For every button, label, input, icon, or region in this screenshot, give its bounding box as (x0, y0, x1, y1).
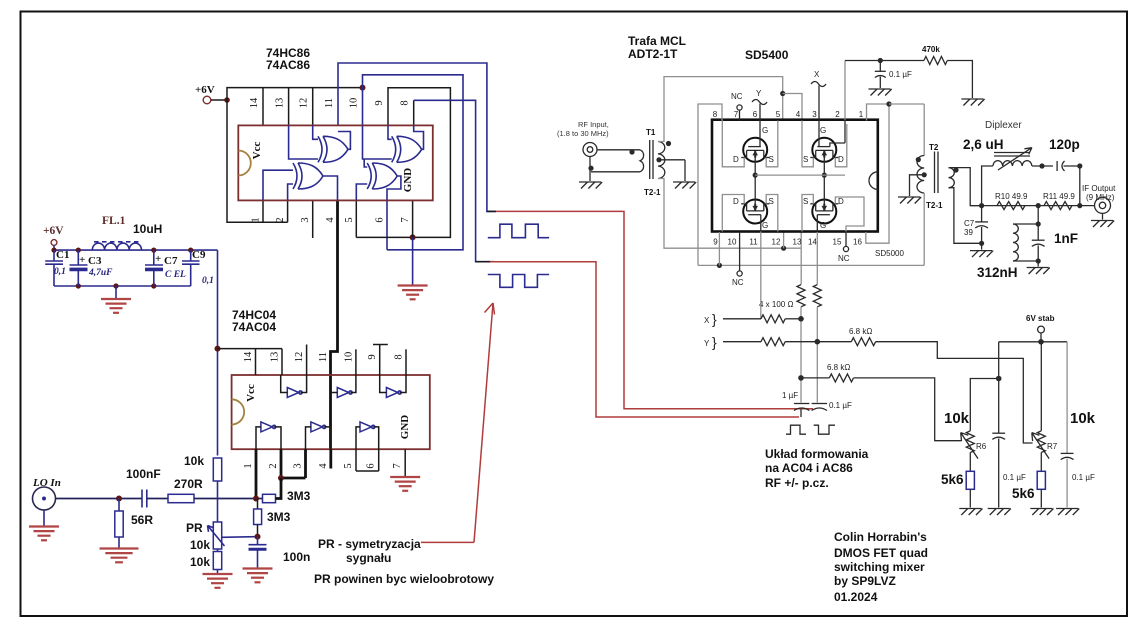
svg-text:14: 14 (808, 238, 817, 247)
svg-text:Trafa MCL: Trafa MCL (628, 34, 686, 48)
svg-text:R10 49.9: R10 49.9 (995, 192, 1028, 201)
bracket Q3 source to pin12 col (766, 195, 778, 232)
svg-text:1: 1 (251, 217, 262, 222)
wire pin 1 / pin 16 hook to T2 primary top (867, 104, 890, 121)
XOR gate C of U1 (298, 163, 323, 189)
svg-text:G: G (820, 221, 826, 230)
gate B output wire to pin 8 (414, 125, 424, 149)
capacitor C7 (C EL electrolytic) (151, 248, 156, 253)
gate5 wires (306, 427, 311, 449)
capacitor 100nF (141, 490, 143, 508)
svg-text:13: 13 (275, 98, 286, 109)
svg-text:15: 15 (833, 238, 842, 247)
red annotation arrow to square waves (474, 303, 493, 542)
gate2 wires (331, 392, 338, 394)
capacitor 0.1uF at bias rail (879, 61, 881, 72)
svg-text:na AC04 i AC86: na AC04 i AC86 (765, 461, 853, 475)
inverter gate 4 of U2 (261, 422, 273, 432)
svg-text:0.1 µF: 0.1 µF (1072, 473, 1095, 482)
svg-text:T2: T2 (929, 143, 939, 152)
junction at pin 10 (+6V tie) (360, 85, 366, 91)
svg-text:FL.1: FL.1 (102, 215, 126, 227)
svg-text:100n: 100n (283, 550, 310, 564)
svg-text:9: 9 (367, 354, 378, 359)
inductor FL1 10uH (94, 241, 140, 243)
svg-text:GND: GND (402, 168, 414, 193)
svg-text:10: 10 (728, 238, 737, 247)
svg-text:+: + (155, 253, 161, 265)
transformer T1 primary winding (640, 150, 644, 172)
svg-text:11: 11 (318, 352, 329, 362)
svg-text:Diplexer: Diplexer (985, 120, 1022, 131)
resistor R11 49.9 (1044, 202, 1072, 210)
transformer T2 primary (923, 104, 925, 156)
ground of 56R (100, 547, 139, 549)
gate4 wires (256, 427, 261, 449)
junction LO at U2 pin1 (253, 496, 259, 502)
junction at 74HC04 Vcc feed (215, 346, 221, 352)
transformer T1 core (649, 140, 651, 179)
ground of power filter (113, 283, 118, 288)
XOR gate B of U1 (397, 136, 422, 162)
wire red LO drive 2 to forming network (476, 261, 490, 263)
wire U2 pin4 stub (329, 449, 332, 468)
svg-text:4: 4 (318, 463, 329, 469)
svg-text:Układ formowania: Układ formowania (765, 447, 869, 461)
svg-text:S: S (769, 155, 774, 164)
XOR gate A of U1 (323, 136, 348, 162)
svg-text:8: 8 (713, 110, 718, 119)
wire pin9 net to pins 5,7 and ground (356, 88, 450, 238)
ground of LO connector (43, 510, 45, 526)
svg-text:C1: C1 (56, 249, 69, 261)
svg-text:2,6 uH: 2,6 uH (963, 137, 1004, 152)
svg-text:Vcc: Vcc (245, 384, 257, 402)
svg-text:0,1: 0,1 (54, 267, 66, 277)
wire Q2-Q4 channel tie (823, 150, 825, 211)
resistor 100R in Y row (761, 338, 785, 346)
bracket Q1 drain to pin8 col (722, 121, 744, 167)
svg-text:7: 7 (400, 217, 411, 222)
inverter gate 5 of U2 (311, 422, 323, 432)
svg-text:10uH: 10uH (133, 222, 162, 236)
wire T1 center tap to ground (656, 157, 661, 162)
svg-text:}: } (712, 311, 717, 327)
ground of right bias cap (1056, 508, 1078, 510)
resistor 3M3 horizontal (263, 494, 276, 502)
bracket Q1 source to pin5 col (766, 121, 778, 167)
junction X bias node (798, 375, 804, 381)
svg-text:PR powinen byc wieloobrotowy: PR powinen byc wieloobrotowy (314, 572, 494, 586)
svg-text:R6: R6 (976, 442, 987, 451)
wire U2 pins 2,3 tie (thick) (280, 449, 283, 478)
gate1 wires (281, 375, 288, 393)
svg-text:ADT2-1T: ADT2-1T (628, 47, 678, 61)
ground of bias 0.1uF (869, 88, 891, 90)
ground of C7 (981, 243, 983, 249)
svg-text:10k: 10k (190, 555, 210, 569)
junction at pin 7 (410, 234, 416, 240)
svg-text:D: D (838, 197, 844, 206)
svg-text:switching mixer: switching mixer (834, 560, 925, 574)
svg-text:DMOS FET quad: DMOS FET quad (834, 546, 928, 560)
wire PR wiper to 3M3/100n junction (222, 536, 258, 539)
inverter gate 2 of U2 (337, 388, 349, 398)
bracket Q4 drain box to right (835, 197, 864, 232)
resistor 5k6 right (1040, 453, 1042, 472)
svg-text:11: 11 (324, 98, 335, 108)
IC U1 74HC86 body (238, 125, 432, 200)
wire pin11 net to red LO drive 1 (338, 63, 496, 211)
ground of divider (203, 573, 233, 575)
wire rail left branch to R6 top node (998, 342, 1000, 379)
pin 15 NC (845, 232, 847, 246)
wire 6V stab rail (999, 341, 1067, 343)
resistor 10k lower of divider (213, 552, 221, 570)
svg-text:10k: 10k (1070, 410, 1096, 427)
bracket Q2 source to pin4 col (802, 121, 813, 167)
svg-text:S: S (803, 155, 808, 164)
gate A input wires from pins 12,13 (313, 125, 318, 139)
capacitor C3 (4,7uF electrolytic) (76, 248, 81, 253)
resistor 100R vertical right (pin 14 leg) (816, 232, 818, 285)
svg-text:S: S (769, 197, 774, 206)
IC U3 SD5400 package (thick) (712, 120, 878, 232)
pin 10 NC (739, 232, 741, 271)
svg-text:T1: T1 (646, 128, 656, 137)
capacitor 120p (1056, 161, 1058, 171)
svg-text:RF +/- p.cz.: RF +/- p.cz. (765, 476, 829, 490)
wire U2 pin7 to ground (404, 449, 406, 476)
bracket Q2 drain to pin2 side (835, 124, 847, 167)
svg-text:Y: Y (704, 339, 710, 348)
wire red LO drive 1 to forming network (487, 210, 496, 212)
resistor 100R vertical left (800, 248, 802, 284)
svg-text:5: 5 (344, 217, 355, 222)
wire T1 secondary top to SD5400 pins 4,5 (658, 77, 783, 142)
svg-text:0.1 µF: 0.1 µF (1003, 473, 1026, 482)
wire to 270R (147, 498, 168, 500)
svg-text:R7: R7 (1047, 442, 1058, 451)
potentiometer PR 10k (213, 522, 221, 549)
svg-text:0.1 µF: 0.1 µF (889, 70, 912, 79)
red annotation leader line (421, 541, 474, 543)
svg-text:74AC86: 74AC86 (266, 58, 310, 72)
svg-text:(1.8 to 30 MHz): (1.8 to 30 MHz) (557, 129, 609, 138)
svg-text:1 µF: 1 µF (782, 391, 798, 400)
svg-text:6: 6 (375, 217, 386, 222)
svg-text:8: 8 (394, 354, 405, 359)
svg-text:Vcc: Vcc (251, 142, 263, 160)
junction 0.1uF on bias rail (878, 58, 883, 63)
transformer T1 secondary winding (658, 142, 665, 179)
svg-text:10: 10 (349, 98, 360, 109)
svg-text:PR: PR (186, 521, 203, 535)
wire to 74HC04 pins 14/13 (218, 348, 283, 350)
wire 120p to node C (1064, 165, 1080, 167)
svg-text:NC: NC (731, 92, 743, 101)
svg-text:12: 12 (294, 352, 305, 363)
svg-text:120p: 120p (1049, 137, 1080, 152)
svg-text:14: 14 (243, 351, 254, 362)
svg-text:01.2024: 01.2024 (834, 590, 878, 604)
svg-text:13: 13 (793, 238, 802, 247)
svg-text:74AC04: 74AC04 (232, 320, 276, 334)
potentiometer R6 (966, 431, 974, 453)
wire R6 top (970, 379, 998, 431)
wire 470k bias rail at pin 2 (844, 61, 846, 121)
junction 6V stab rail (1038, 339, 1044, 345)
svg-text:3: 3 (812, 110, 817, 119)
wire T2 secondary bottom to C7 ground node (949, 188, 982, 244)
svg-text:T2-1: T2-1 (926, 201, 943, 210)
capacitor 0.1uF right bias (1061, 452, 1074, 454)
junction 3M3/100n/PR (255, 534, 261, 540)
inverter gate 3 of U2 (386, 388, 398, 398)
svg-text:NC: NC (732, 278, 744, 287)
ground of 100n (243, 567, 273, 569)
svg-text:8: 8 (400, 100, 411, 105)
U3 die notch (869, 172, 878, 190)
svg-text:6: 6 (366, 463, 377, 468)
svg-text:100nF: 100nF (126, 467, 161, 481)
transformer T2 secondary (949, 168, 955, 188)
svg-text:9: 9 (713, 238, 718, 247)
svg-text:10k: 10k (190, 538, 210, 552)
wire +6V rail top (54, 249, 218, 251)
svg-text:by SP9LVZ: by SP9LVZ (834, 574, 896, 588)
svg-text:Y: Y (756, 89, 762, 98)
svg-text:11: 11 (749, 238, 758, 247)
svg-text:14: 14 (249, 97, 260, 108)
resistor 5k6 left (969, 453, 971, 472)
wire to 120p (1032, 165, 1053, 167)
svg-text:C7: C7 (164, 255, 178, 267)
resistor 56R (118, 499, 120, 512)
svg-text:312nH: 312nH (977, 265, 1018, 280)
square wave symbol 3 (black) (786, 425, 806, 434)
svg-text:12: 12 (772, 238, 781, 247)
capacitor C7 39 (981, 206, 983, 222)
wire divider 10k to PR pot (217, 481, 219, 522)
inverter gate 6 of U2 (360, 422, 372, 432)
svg-text:GND: GND (399, 415, 411, 440)
IC U2 74HC04 body (232, 375, 430, 449)
svg-text:2: 2 (268, 463, 279, 468)
gate D output wire to pin 6 (387, 176, 401, 200)
gate6 wires (356, 427, 360, 449)
IC U1 notch (238, 151, 250, 176)
junction pins2/3 (278, 475, 284, 481)
wire +6V top run to pin10 junction (227, 88, 363, 100)
junction +6V loop (224, 97, 230, 103)
gate B input wires from pins 9,10 (388, 125, 392, 139)
inductor 2,6uH variable (993, 161, 1032, 166)
wire SD5400 bottom rail to T2 primary bottom (698, 264, 924, 266)
svg-text:+6V: +6V (195, 84, 215, 96)
pin stubs top of U2 (255, 349, 257, 375)
svg-text:G: G (820, 126, 826, 135)
wire 270R to U2 pin1 junction (194, 498, 263, 500)
ground of U2 pin 7 (390, 476, 420, 478)
ground of left bias cap (988, 508, 1010, 510)
wire T1 secondary bottom to SD5400 pins 12,13 (658, 179, 801, 249)
resistor 3M3 vertical (257, 499, 259, 510)
wire center ties crossbar (755, 174, 845, 176)
square wave symbol 2 (blue) (488, 275, 549, 288)
wire LO main line (56, 498, 143, 500)
svg-text:C EL: C EL (165, 270, 186, 280)
wire T2 primary bottom to rail (923, 193, 925, 265)
capacitor 0.1uF (forming) (812, 403, 828, 405)
wire bottom rail of filter (54, 285, 191, 287)
gate C input wires from pins 1,2 (263, 170, 293, 200)
junction 56R (116, 496, 122, 502)
potentiometer R7 (1040, 342, 1042, 431)
svg-text:56R: 56R (131, 513, 153, 527)
svg-text:10k: 10k (184, 454, 204, 468)
svg-text:sygnału: sygnału (346, 551, 391, 565)
resistor R10 49.9 (997, 202, 1025, 210)
svg-text:4: 4 (325, 217, 336, 223)
ground of R6 chain (959, 508, 981, 510)
wire 470k to ground (947, 61, 972, 99)
svg-text:X: X (704, 316, 710, 325)
ground of 312nH/1nF (1037, 261, 1039, 267)
pin stubs 14 13 12 of 74HC86 (262, 88, 264, 126)
gate A output wire to pin 11 (338, 132, 350, 150)
svg-text:5k6: 5k6 (941, 472, 964, 487)
wire +6V feed down to 74HC04 and bias divider (217, 250, 219, 455)
svg-text:6: 6 (753, 110, 758, 119)
inverter gate 1 of U2 (287, 388, 299, 398)
svg-text:2: 2 (275, 217, 286, 222)
svg-text:13: 13 (270, 352, 281, 363)
svg-text:D: D (838, 155, 844, 164)
wire SD5400 pin 11 down to X row (760, 232, 762, 319)
FET Q2 top-right of U3 (812, 138, 836, 162)
svg-text:T2-1: T2-1 (644, 188, 661, 197)
wire Vcc loop left side to pins 1,2 (227, 100, 288, 222)
pin3 stub of 74HC86 (312, 200, 314, 238)
wire T2 secondary top to diplexer node A (949, 168, 982, 206)
capacitor 100n (257, 537, 259, 545)
svg-text:270R: 270R (174, 477, 203, 491)
svg-text:+6V: +6V (43, 225, 64, 237)
svg-text:4 x 100 Ω: 4 x 100 Ω (759, 300, 793, 309)
svg-text:6.8 kΩ: 6.8 kΩ (827, 363, 850, 372)
wire pin8 net to red LO drive 2 (413, 100, 415, 125)
svg-text:10k: 10k (944, 410, 970, 427)
svg-text:NC: NC (838, 254, 850, 263)
svg-text:470k: 470k (922, 45, 940, 54)
wire pin4 of 74HC86 down to 74HC04 pin 11 (thick) (331, 200, 338, 449)
svg-text:G: G (762, 221, 768, 230)
wire diplexer top branch (982, 166, 993, 206)
ground of 74HC86 pin 7 (412, 237, 414, 285)
IC U2 notch (232, 399, 245, 424)
wire U2 pin1 to LO line (255, 449, 258, 498)
svg-text:D: D (733, 197, 739, 206)
resistor 270R (168, 494, 194, 502)
gate C output wire to pin 4 (323, 176, 338, 200)
svg-text:7: 7 (392, 463, 403, 468)
resistor 470k (924, 57, 947, 65)
gate3 wires (380, 375, 387, 393)
svg-text:X: X (814, 70, 820, 79)
svg-text:1: 1 (859, 110, 864, 119)
resistor 100R in X row (761, 315, 785, 323)
diplexer middle row wire (970, 205, 1094, 207)
svg-text:7: 7 (734, 110, 739, 119)
junction pin 9 on bottom rail (717, 263, 722, 268)
wire pin10 net to pin 6 (363, 75, 464, 250)
svg-text:RF Input,: RF Input, (578, 120, 609, 129)
svg-text:SD5400: SD5400 (745, 48, 789, 62)
svg-text:6V stab: 6V stab (1026, 314, 1055, 323)
svg-text:5k6: 5k6 (1012, 486, 1035, 501)
junction R6 top node (996, 376, 1002, 382)
wire rail right branch (1066, 342, 1068, 453)
bracket Q4 source to pin13 col (802, 195, 813, 232)
svg-text:}: } (712, 334, 717, 350)
ground of R7 chain (1030, 508, 1052, 510)
junction Y node (815, 339, 821, 345)
svg-text:C9: C9 (192, 249, 206, 261)
bracket Q3 drain to pin9 col (722, 195, 744, 232)
capacitor C1 (51, 248, 56, 253)
svg-text:6.8 kΩ: 6.8 kΩ (849, 327, 872, 336)
wire RF to T1 primary (597, 149, 640, 151)
svg-text:4,7uF: 4,7uF (88, 268, 113, 278)
XOR gate D of U1 (372, 163, 397, 189)
svg-text:1: 1 (243, 463, 254, 468)
svg-text:3M3: 3M3 (287, 489, 311, 503)
svg-text:C7: C7 (964, 219, 975, 228)
svg-text:1nF: 1nF (1054, 231, 1078, 246)
wire 3M3 to pin2/3 junction (thick) (276, 478, 282, 499)
square wave symbol 4 (black) (814, 425, 835, 434)
svg-text:3M3: 3M3 (267, 510, 291, 524)
svg-text:IF Output: IF Output (1082, 184, 1116, 193)
svg-text:4: 4 (796, 110, 801, 119)
svg-text:12: 12 (299, 98, 310, 109)
svg-text:G: G (762, 126, 768, 135)
svg-text:Colin Horrabin's: Colin Horrabin's (834, 530, 927, 544)
svg-text:10: 10 (343, 352, 354, 363)
wire Q1-Q3 channel tie (754, 150, 756, 211)
ground of RF connector (588, 166, 593, 171)
ground of IF Output (1102, 213, 1104, 219)
junction X node (798, 316, 804, 322)
T2 center tap to ground (922, 172, 927, 177)
FET Q1 top-left of U3 (743, 138, 767, 162)
svg-text:3: 3 (300, 217, 311, 222)
inductor 312nH and capacitor 1nF (1037, 206, 1039, 224)
FET Q3 bottom-left of U3 (743, 200, 767, 224)
transformer T2 core (934, 152, 936, 194)
svg-text:0.1 µF: 0.1 µF (829, 401, 852, 410)
svg-text:16: 16 (853, 238, 862, 247)
svg-text:3: 3 (293, 463, 304, 468)
svg-text:5: 5 (776, 110, 781, 119)
svg-text:9: 9 (374, 100, 385, 105)
svg-text:R11 49.9: R11 49.9 (1043, 192, 1075, 201)
svg-text:5: 5 (343, 463, 354, 468)
gate D input wires from pin10 net and pin 5 (364, 159, 367, 167)
svg-text:39: 39 (964, 228, 973, 237)
svg-text:0,1: 0,1 (202, 276, 214, 286)
